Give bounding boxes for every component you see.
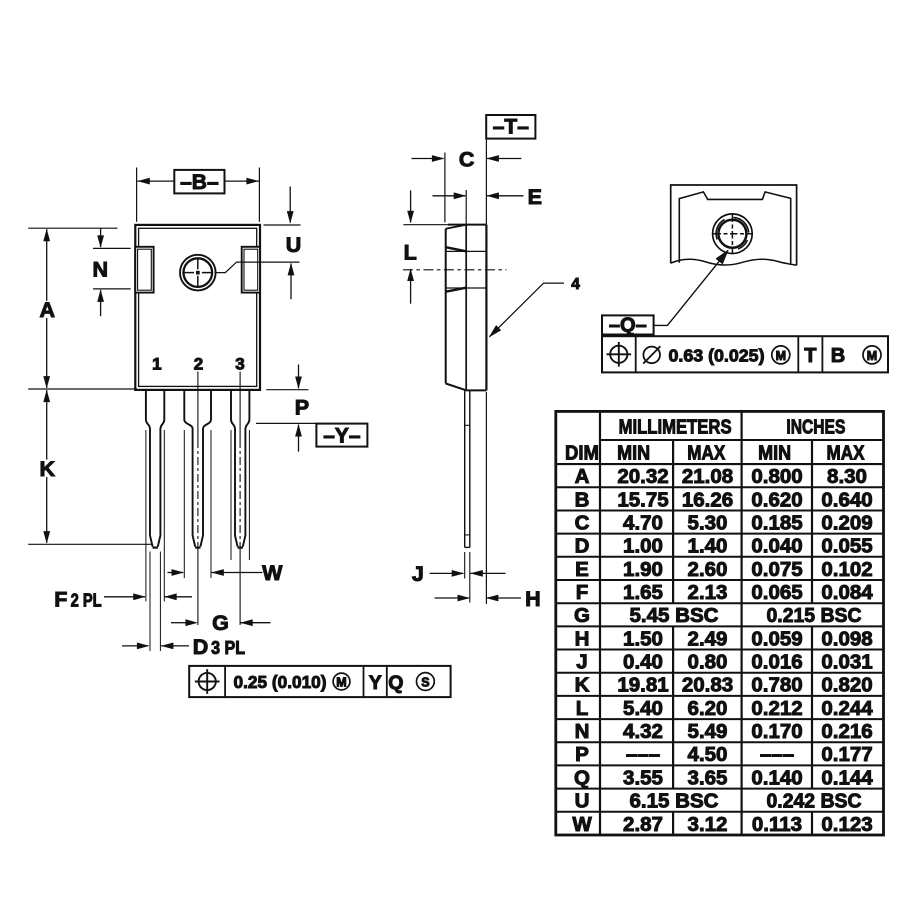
svg-text:0.185: 0.185	[751, 512, 802, 535]
svg-text:B: B	[831, 345, 845, 367]
svg-text:DIM: DIM	[565, 442, 599, 465]
table horizontal lines	[600, 439, 884, 441]
dimension N lower arrow	[97, 289, 104, 302]
svg-text:W: W	[572, 813, 592, 836]
svg-text:20.83: 20.83	[682, 674, 733, 697]
svg-text:1.00: 1.00	[623, 535, 663, 558]
svg-text:4.70: 4.70	[623, 512, 663, 535]
dimension E	[433, 195, 466, 197]
svg-text:MAX: MAX	[687, 442, 725, 465]
circled M modifier	[333, 673, 350, 690]
svg-text:4.50: 4.50	[688, 743, 728, 766]
svg-text:D: D	[193, 635, 209, 659]
svg-text:21.08: 21.08	[682, 465, 733, 488]
svg-text:4.32: 4.32	[623, 720, 663, 743]
svg-text:0.640: 0.640	[821, 488, 872, 511]
svg-text:M: M	[867, 349, 877, 363]
svg-text:0.098: 0.098	[821, 627, 872, 650]
dimension W	[168, 572, 184, 574]
svg-text:K: K	[575, 674, 590, 697]
hole center line dash-dot	[403, 269, 507, 271]
svg-text:0.084: 0.084	[821, 581, 873, 604]
svg-text:0.216: 0.216	[821, 720, 872, 743]
svg-text:0.780: 0.780	[751, 674, 802, 697]
dimension A	[43, 229, 50, 242]
svg-text:G: G	[212, 611, 229, 635]
svg-text:Q: Q	[388, 672, 403, 694]
svg-text:H: H	[525, 587, 541, 611]
svg-text:5.49: 5.49	[688, 720, 728, 743]
svg-text:6.15 BSC: 6.15 BSC	[630, 790, 719, 813]
datum Y box	[316, 424, 367, 447]
svg-text:S: S	[421, 676, 429, 690]
svg-text:0.031: 0.031	[821, 651, 872, 674]
circled M modifier	[772, 346, 790, 364]
svg-text:19.81: 19.81	[617, 674, 668, 697]
svg-text:1.40: 1.40	[688, 535, 728, 558]
table vertical lines	[599, 411, 601, 835]
svg-text:0.209: 0.209	[821, 512, 872, 535]
svg-text:G: G	[574, 604, 590, 627]
svg-text:0.244: 0.244	[821, 697, 873, 720]
front view package body outline	[135, 225, 260, 390]
svg-text:0.059: 0.059	[751, 627, 802, 650]
svg-text:J: J	[576, 651, 587, 674]
svg-text:2.13: 2.13	[688, 581, 728, 604]
svg-text:E: E	[528, 185, 542, 209]
dimension D arrows	[122, 645, 149, 647]
svg-text:0.140: 0.140	[751, 766, 802, 789]
svg-text:0.144: 0.144	[821, 766, 873, 789]
svg-text:P: P	[575, 743, 589, 766]
detail view tab outline	[679, 192, 790, 264]
pin 1 wide extension lines	[145, 430, 147, 602]
dimension U upper extension line	[264, 224, 301, 226]
svg-text:F: F	[54, 588, 67, 612]
svg-text:0.820: 0.820	[821, 674, 872, 697]
svg-text:5.40: 5.40	[623, 697, 663, 720]
svg-text:0.055: 0.055	[821, 535, 872, 558]
L top extension line	[403, 224, 453, 226]
svg-text:MIN: MIN	[617, 442, 650, 465]
detail hole inner circle	[718, 220, 746, 248]
svg-text:20.32: 20.32	[617, 465, 668, 488]
front view right side notch	[242, 247, 260, 293]
feature control frame bottom	[189, 666, 450, 697]
svg-text:–B–: –B–	[180, 171, 219, 194]
svg-text:J: J	[412, 562, 424, 586]
detail hole thread arcs	[716, 219, 724, 239]
svg-text:N: N	[575, 720, 590, 743]
side view notch lines	[446, 250, 487, 252]
mounting hole crosshair	[182, 272, 194, 274]
dimension P upper arrow	[298, 365, 300, 389]
svg-text:0.123: 0.123	[821, 813, 872, 836]
dimension N upper arrow	[100, 228, 102, 247]
svg-text:K: K	[40, 457, 56, 481]
dimension G	[171, 622, 187, 624]
svg-text:–Y–: –Y–	[323, 425, 361, 448]
svg-text:0.215 BSC: 0.215 BSC	[767, 604, 862, 627]
pin 2 front view	[184, 390, 195, 547]
svg-text:3.12: 3.12	[688, 813, 728, 836]
detail hole crosshair	[714, 233, 752, 235]
svg-text:3 PL: 3 PL	[211, 638, 245, 658]
svg-text:M: M	[336, 675, 346, 689]
svg-text:A: A	[575, 465, 590, 488]
svg-text:3.65: 3.65	[688, 766, 728, 789]
pin 2 wide extension lines	[183, 430, 185, 578]
svg-text:–––: –––	[626, 743, 660, 766]
svg-text:3.55: 3.55	[623, 766, 663, 789]
svg-text:0.040: 0.040	[751, 535, 802, 558]
svg-text:0.40: 0.40	[623, 651, 663, 674]
svg-text:1: 1	[152, 354, 161, 373]
detail hole outer circle	[713, 214, 753, 254]
svg-text:0.102: 0.102	[821, 558, 872, 581]
svg-text:2.60: 2.60	[688, 558, 728, 581]
svg-text:0.016: 0.016	[751, 651, 802, 674]
svg-text:0.25 (0.010): 0.25 (0.010)	[234, 672, 327, 692]
svg-text:0.113: 0.113	[752, 813, 802, 836]
dimension U lower arrow	[288, 263, 295, 276]
front face extension line	[444, 153, 446, 223]
pin 3 front view	[231, 390, 238, 547]
svg-text:0.065: 0.065	[751, 581, 802, 604]
svg-text:T: T	[804, 345, 816, 367]
svg-text:2.87: 2.87	[623, 813, 663, 836]
pin 2 center line leader	[197, 372, 199, 441]
dimension L upper arrow	[410, 190, 412, 222]
leader from hole center to U extension	[215, 262, 300, 273]
P upper extension line	[266, 389, 308, 391]
svg-text:E: E	[575, 558, 589, 581]
svg-text:5.45 BSC: 5.45 BSC	[630, 604, 719, 627]
dimension P lower arrow	[295, 424, 302, 437]
bottom extension line at pin tips	[28, 543, 152, 545]
datum T extension line upper	[485, 139, 487, 225]
diameter symbol	[643, 347, 660, 364]
svg-text:–Q–: –Q–	[609, 314, 647, 336]
svg-text:F: F	[576, 581, 589, 604]
pin 3 center line leader	[239, 372, 241, 441]
svg-text:W: W	[262, 561, 283, 585]
feature control frame top right	[602, 336, 888, 372]
side view body outline	[448, 224, 486, 226]
svg-text:0.170: 0.170	[751, 720, 802, 743]
svg-text:Y: Y	[369, 672, 382, 694]
svg-text:2 PL: 2 PL	[71, 591, 102, 611]
datum T extension line lower	[485, 392, 487, 604]
svg-text:C: C	[459, 148, 475, 172]
svg-text:H: H	[575, 627, 590, 650]
svg-text:0.620: 0.620	[751, 488, 802, 511]
svg-text:P: P	[295, 396, 309, 420]
datum T box	[486, 115, 535, 139]
notch top extension line	[93, 247, 131, 249]
svg-text:0.242 BSC: 0.242 BSC	[767, 790, 862, 813]
svg-text:M: M	[776, 349, 786, 363]
leader from Q box to hole	[654, 251, 728, 326]
detail view outer frame with break line	[671, 185, 797, 265]
svg-text:0.177: 0.177	[821, 743, 872, 766]
svg-text:B: B	[575, 488, 590, 511]
svg-text:0.075: 0.075	[751, 558, 802, 581]
svg-text:N: N	[93, 258, 109, 282]
P lower extension line / seating plane	[256, 422, 316, 424]
position symbol	[199, 673, 216, 690]
svg-text:8.30: 8.30	[827, 465, 867, 488]
dimension B arrows and lines	[137, 180, 174, 182]
svg-text:–T–: –T–	[493, 115, 530, 138]
dimension L lower arrow	[407, 269, 414, 282]
svg-text:0.800: 0.800	[751, 465, 802, 488]
pin 3 wide extension lines	[230, 430, 232, 560]
dimension U upper arrow	[289, 187, 291, 223]
pin 1 narrow extension lines	[149, 552, 151, 652]
circled S modifier	[417, 673, 435, 691]
dimension F arrows	[104, 596, 145, 598]
pin side extension lines	[464, 552, 466, 579]
svg-text:MILLIMETERS: MILLIMETERS	[619, 415, 732, 438]
side view notch wedges	[446, 247, 467, 251]
svg-text:L: L	[576, 697, 589, 720]
position symbol	[610, 346, 627, 363]
svg-text:2: 2	[194, 354, 203, 373]
dimension C	[412, 158, 444, 160]
mid plane extension line	[465, 190, 467, 224]
svg-text:MAX: MAX	[827, 442, 865, 465]
notch bottom extension line	[93, 288, 131, 290]
svg-text:16.26: 16.26	[682, 488, 733, 511]
circled M modifier 2	[863, 346, 881, 364]
dimension table outer border	[556, 411, 884, 835]
front view body inner line	[139, 228, 257, 386]
side view pin	[464, 390, 466, 547]
svg-text:U: U	[286, 233, 302, 257]
svg-text:15.75: 15.75	[617, 488, 668, 511]
datum B box	[174, 170, 224, 194]
svg-text:1.65: 1.65	[623, 581, 663, 604]
svg-text:6.20: 6.20	[688, 697, 728, 720]
svg-text:D: D	[575, 535, 590, 558]
svg-text:0.212: 0.212	[751, 697, 802, 720]
dimension K	[43, 390, 50, 403]
svg-text:3: 3	[235, 354, 244, 373]
svg-text:U: U	[575, 790, 590, 813]
pin 1 front view	[146, 390, 153, 547]
middle extension line at body bottom	[28, 388, 137, 390]
svg-text:–––: –––	[760, 743, 794, 766]
svg-text:C: C	[575, 512, 590, 535]
svg-text:0.80: 0.80	[688, 651, 728, 674]
mounting hole inner circle	[184, 258, 213, 287]
svg-text:L: L	[404, 241, 417, 265]
front view left side notch	[135, 247, 153, 293]
svg-text:4: 4	[571, 276, 580, 293]
dimension H	[435, 597, 470, 599]
top left extension line	[28, 227, 117, 229]
mounting hole outer circle	[180, 255, 216, 291]
svg-text:MIN: MIN	[758, 442, 791, 465]
svg-text:1.50: 1.50	[623, 627, 663, 650]
svg-text:2.49: 2.49	[688, 627, 728, 650]
svg-text:5.30: 5.30	[688, 512, 728, 535]
svg-text:1.90: 1.90	[623, 558, 663, 581]
dimension B extension lines	[136, 168, 138, 222]
datum Q box	[602, 315, 654, 334]
svg-text:INCHES: INCHES	[786, 415, 845, 438]
svg-text:Q: Q	[574, 766, 590, 789]
svg-text:0.63 (0.025): 0.63 (0.025)	[669, 346, 765, 366]
